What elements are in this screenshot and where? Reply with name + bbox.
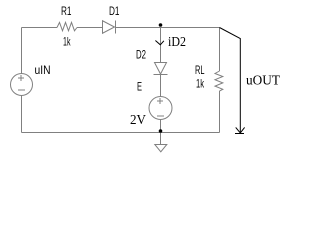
svg-text:2V: 2V [130,113,146,128]
svg-text:D1: D1 [109,4,120,18]
svg-text:1k: 1k [63,35,71,49]
svg-text:RL: RL [195,63,205,77]
svg-text:iD2: iD2 [168,35,186,50]
svg-text:R1: R1 [61,4,72,18]
svg-text:D2: D2 [136,48,146,62]
svg-text:E: E [137,80,142,94]
svg-text:uOUT: uOUT [246,74,280,89]
svg-text:uIN: uIN [35,63,51,77]
svg-text:1k: 1k [196,77,205,91]
